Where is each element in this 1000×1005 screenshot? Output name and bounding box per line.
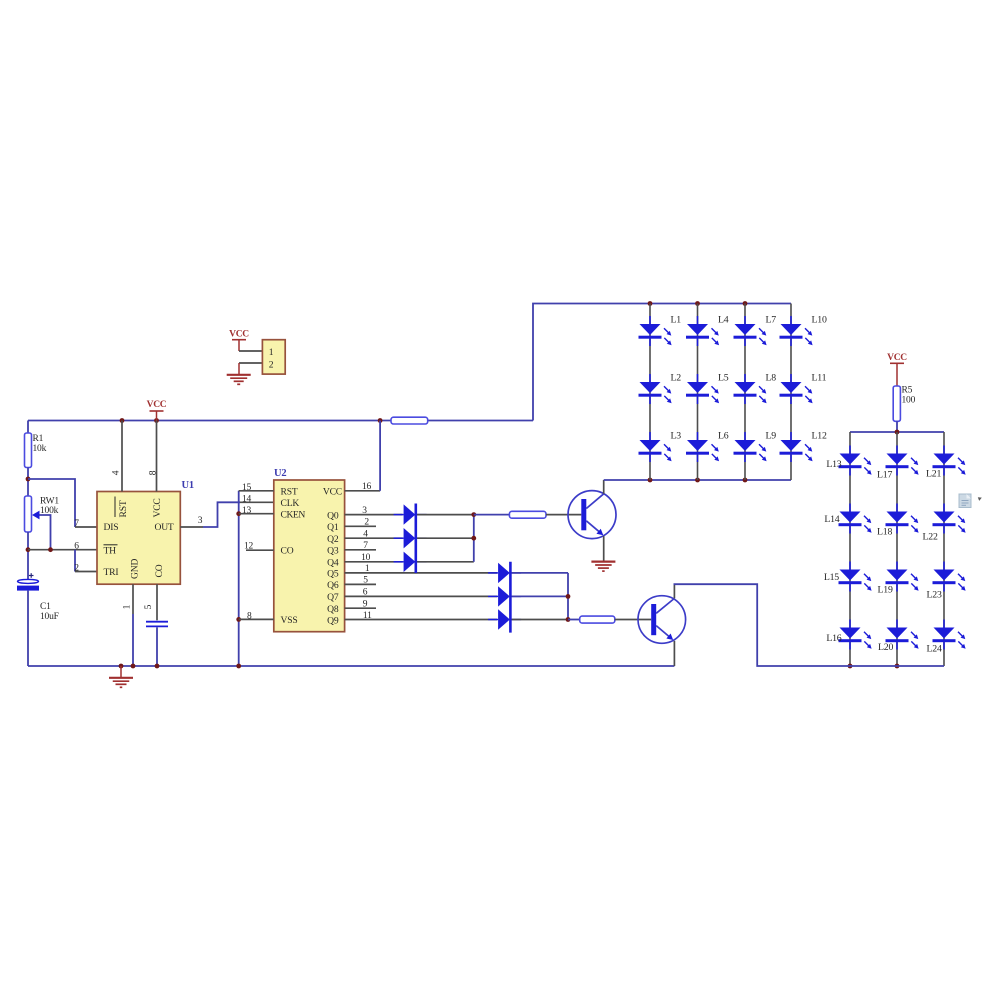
label L12 xyxy=(812,431,827,442)
IC U1 555 timer body xyxy=(97,492,180,585)
diode D3 xyxy=(394,552,427,572)
svg-text:L9: L9 xyxy=(766,431,777,442)
wire D3 cathode out xyxy=(417,561,474,563)
wire pin 1 GND down xyxy=(132,584,134,666)
diode D6 xyxy=(488,609,521,629)
diode group 1 cathode bar xyxy=(414,504,417,574)
wire LED column 3 xyxy=(744,304,746,481)
wire TRI branch to pin 2 xyxy=(75,550,97,572)
label L15 xyxy=(824,572,839,583)
wire Q1 pin 2 stub xyxy=(345,525,376,527)
wire Q0 pin 3 stub xyxy=(345,514,403,516)
wire LED column 2 xyxy=(697,304,699,481)
LED L6 xyxy=(686,432,719,462)
label U2 xyxy=(274,468,286,479)
svg-text:12: 12 xyxy=(244,542,254,552)
svg-text:L5: L5 xyxy=(718,373,729,384)
pin name OUT xyxy=(154,522,173,533)
svg-text:C1: C1 xyxy=(40,602,51,612)
LED L4 xyxy=(686,316,719,346)
pin number 11 xyxy=(363,611,372,621)
svg-text:CKEN: CKEN xyxy=(281,510,306,521)
pin number 6 xyxy=(363,588,368,598)
pin number 6 xyxy=(74,542,79,552)
pin number 1 xyxy=(365,564,370,574)
wire C1 to ground rail xyxy=(27,591,29,666)
svg-text:6: 6 xyxy=(74,542,79,552)
wire D5 cathode out xyxy=(512,595,568,597)
svg-text:L14: L14 xyxy=(824,514,839,525)
pin name CLK xyxy=(281,498,300,509)
label L17 xyxy=(877,470,892,481)
junction bus CKEN xyxy=(236,511,241,516)
label L16 xyxy=(826,633,841,644)
LED L11 xyxy=(780,374,813,404)
watermark icon xyxy=(959,494,982,508)
wire Q2 collector path to matrix 2 xyxy=(674,584,945,666)
LED L21 xyxy=(933,446,966,476)
svg-text:GND: GND xyxy=(130,559,141,579)
pin name Q1 xyxy=(327,522,339,533)
label L22 xyxy=(923,532,938,543)
pin name Q0 xyxy=(327,510,339,521)
svg-text:2: 2 xyxy=(364,518,369,528)
svg-text:11: 11 xyxy=(363,611,372,621)
wire pin 8 stub xyxy=(239,618,274,620)
svg-text:15: 15 xyxy=(242,483,252,493)
pin number 8 xyxy=(148,470,158,475)
wire Q1 emitter down xyxy=(603,536,605,562)
wire Q2 pin 4 stub xyxy=(345,537,403,539)
ground connector xyxy=(227,375,251,385)
wire pin 13 stub xyxy=(239,513,274,515)
junction ground rail pin1 xyxy=(131,664,136,669)
junction node A top xyxy=(471,512,476,517)
svg-text:4: 4 xyxy=(112,470,122,475)
svg-text:CO: CO xyxy=(281,546,294,557)
svg-text:VCC: VCC xyxy=(152,498,163,517)
pin number 5 xyxy=(363,576,368,586)
pin name CO vertical xyxy=(154,564,165,577)
svg-text:L12: L12 xyxy=(812,431,827,442)
svg-text:1: 1 xyxy=(123,604,133,609)
svg-text:8: 8 xyxy=(148,470,158,475)
junction bus VSS xyxy=(236,617,241,622)
power VCC R5 xyxy=(887,353,907,386)
wire node B vertical join xyxy=(567,573,569,620)
pin number 7 xyxy=(74,519,79,529)
LED L19 xyxy=(886,562,919,592)
pin number 3 xyxy=(362,506,367,516)
wire D1 cathode out xyxy=(417,514,474,516)
svg-text:L3: L3 xyxy=(671,431,682,442)
pin number 4 xyxy=(112,470,122,475)
LED L20 xyxy=(886,620,919,650)
svg-text:TRI: TRI xyxy=(104,567,119,578)
resistor R3 xyxy=(509,511,546,518)
pin number 1 connector xyxy=(269,347,274,358)
label L5 xyxy=(718,373,729,384)
power VCC connector xyxy=(229,329,249,351)
wire LED matrix 2 top rail xyxy=(850,431,944,433)
transistor Q1 xyxy=(568,491,616,539)
wire Q2 emitter down xyxy=(673,641,675,666)
svg-text:Q3: Q3 xyxy=(327,546,339,557)
LED L23 xyxy=(933,562,966,592)
wire Q8 pin 9 stub xyxy=(345,607,376,609)
label L10 xyxy=(812,315,827,326)
svg-text:5: 5 xyxy=(363,576,368,586)
label L11 xyxy=(812,373,827,384)
LED L1 xyxy=(639,316,672,346)
svg-text:2: 2 xyxy=(74,563,79,573)
svg-text:L10: L10 xyxy=(812,315,827,326)
wire riser to LED matrix 1 xyxy=(533,304,791,421)
pin name Q8 xyxy=(327,604,339,615)
svg-text:L11: L11 xyxy=(812,373,827,384)
svg-text:RW1: RW1 xyxy=(40,497,59,507)
wire main VCC rail xyxy=(28,420,391,422)
junction node B bottom xyxy=(566,617,571,622)
junction bottom rail col2 xyxy=(695,478,700,483)
junction node B mid xyxy=(566,594,571,599)
junction matrix2 bottom col1 xyxy=(848,664,853,669)
svg-text:Q6: Q6 xyxy=(327,580,339,591)
pin number 5 xyxy=(144,604,154,609)
pin name RST U2 xyxy=(281,487,298,498)
junction top rail col2 xyxy=(695,301,700,306)
label U1 xyxy=(182,480,194,491)
svg-text:R1: R1 xyxy=(33,434,44,444)
pin name Q6 xyxy=(327,580,339,591)
junction TH wiper xyxy=(48,547,53,552)
pin number 2 xyxy=(364,518,369,528)
label L6 xyxy=(718,431,729,442)
svg-text:CLK: CLK xyxy=(281,498,300,509)
svg-text:L6: L6 xyxy=(718,431,729,442)
label R1 value xyxy=(33,434,47,454)
svg-text:DIS: DIS xyxy=(104,522,119,533)
svg-text:6: 6 xyxy=(363,588,368,598)
pin name VSS xyxy=(281,615,298,626)
wire bottom ground rail xyxy=(28,665,674,667)
svg-text:TH: TH xyxy=(104,546,117,557)
pin number 16 xyxy=(362,482,372,492)
label C1 value xyxy=(40,602,59,622)
LED L5 xyxy=(686,374,719,404)
wire OUT stub xyxy=(180,526,203,528)
wire connector ground stem xyxy=(238,363,240,375)
wire node A vertical join xyxy=(473,515,475,562)
wire LED column 1 xyxy=(649,304,651,481)
LED L16 xyxy=(839,620,872,650)
wire C2 to ground rail xyxy=(156,627,158,666)
label L3 xyxy=(671,431,682,442)
LED L2 xyxy=(639,374,672,404)
svg-text:R5: R5 xyxy=(902,386,913,396)
svg-text:L16: L16 xyxy=(826,633,841,644)
resistor R1 xyxy=(25,433,32,468)
svg-text:5: 5 xyxy=(144,604,154,609)
svg-text:2: 2 xyxy=(269,360,274,371)
label L1 xyxy=(671,315,682,326)
wire pin 8 VCC xyxy=(156,421,158,492)
diode D5 xyxy=(488,586,521,606)
svg-text:VCC: VCC xyxy=(147,400,167,410)
junction node A mid xyxy=(471,536,476,541)
svg-text:VCC: VCC xyxy=(323,487,342,498)
svg-text:L22: L22 xyxy=(923,532,938,543)
wire R5 to matrix rail xyxy=(896,421,898,432)
svg-text:OUT: OUT xyxy=(154,522,173,533)
ground Q1 emitter xyxy=(591,562,615,572)
LED L12 xyxy=(780,432,813,462)
junction top rail col3 xyxy=(743,301,748,306)
svg-text:3: 3 xyxy=(198,516,203,526)
junction bottom rail col1 xyxy=(648,478,653,483)
svg-text:8: 8 xyxy=(247,611,252,621)
pin number 12 xyxy=(244,542,254,552)
svg-text:Q9: Q9 xyxy=(327,615,339,626)
wire D2 cathode out xyxy=(417,537,474,539)
junction top rail col1 xyxy=(648,301,653,306)
pin name Q3 xyxy=(327,546,339,557)
LED L24 xyxy=(933,620,966,650)
pin name GND vertical xyxy=(130,559,141,579)
svg-text:L1: L1 xyxy=(671,315,682,326)
svg-text:16: 16 xyxy=(362,482,372,492)
connector J1 xyxy=(262,340,285,374)
LED L17 xyxy=(886,446,919,476)
junction rail VCC xyxy=(154,418,159,423)
pin number 10 xyxy=(361,553,371,563)
label L7 xyxy=(766,315,777,326)
wire Q4 pin 10 stub xyxy=(345,561,403,563)
pin number 8 U2 xyxy=(247,611,252,621)
svg-text:L20: L20 xyxy=(878,642,893,653)
wire connector pin 2 xyxy=(239,362,262,364)
wire pin 12 stub xyxy=(246,549,274,551)
LED L13 xyxy=(839,446,872,476)
wire R3 to Q1 base xyxy=(546,514,581,516)
wire pin 16 riser xyxy=(379,421,381,491)
wire RW1 wiper xyxy=(40,515,51,550)
label R5 value xyxy=(902,386,916,406)
pin name RST vertical xyxy=(115,497,129,518)
label L9 xyxy=(766,431,777,442)
pin name TRI xyxy=(104,567,119,578)
pin number 2 connector xyxy=(269,360,274,371)
pin name VCC vertical xyxy=(152,498,163,517)
svg-text:L21: L21 xyxy=(926,469,941,480)
LED L10 xyxy=(780,316,813,346)
wire OUT to U2 CLK xyxy=(203,502,274,527)
wire node B to R4 xyxy=(568,619,580,621)
wire LED matrix 1 bottom rail xyxy=(604,479,791,481)
svg-text:9: 9 xyxy=(363,600,368,610)
label L18 xyxy=(877,527,892,538)
junction rail U2 VCC drop xyxy=(378,418,383,423)
label L14 xyxy=(824,514,839,525)
junction ground rail gnd xyxy=(119,664,124,669)
wire D6 cathode out xyxy=(512,619,568,621)
pin name Q4 xyxy=(327,558,339,569)
pin number 1 xyxy=(123,604,133,609)
svg-text:L2: L2 xyxy=(671,373,682,384)
svg-text:13: 13 xyxy=(242,506,252,516)
pin name Q2 xyxy=(327,534,339,545)
svg-text:10k: 10k xyxy=(33,444,47,454)
svg-text:L18: L18 xyxy=(877,527,892,538)
pin name Q7 xyxy=(327,592,339,603)
label L8 xyxy=(766,373,777,384)
svg-text:L4: L4 xyxy=(718,315,729,326)
pin name DIS xyxy=(104,522,119,533)
label L2 xyxy=(671,373,682,384)
svg-text:L7: L7 xyxy=(766,315,777,326)
pin name VCC U2 xyxy=(323,487,342,498)
wire pin 4 RST xyxy=(121,421,123,492)
svg-text:L15: L15 xyxy=(824,572,839,583)
pin name Q9 xyxy=(327,615,339,626)
pin number 9 xyxy=(363,600,368,610)
wire LED column 4 xyxy=(790,304,792,481)
LED L9 xyxy=(734,432,767,462)
svg-text:10: 10 xyxy=(361,553,371,563)
wire node A to R3 xyxy=(474,514,510,516)
pin number 14 xyxy=(242,495,252,505)
wire Q7 pin 6 stub xyxy=(345,595,497,597)
svg-text:1: 1 xyxy=(365,564,370,574)
junction bottom rail col3 xyxy=(743,478,748,483)
svg-text:Q2: Q2 xyxy=(327,534,339,545)
diode D4 xyxy=(488,563,521,583)
wire Q1 collector riser xyxy=(603,480,605,494)
svg-text:VCC: VCC xyxy=(887,353,907,363)
label L20 xyxy=(878,642,893,653)
svg-text:Q7: Q7 xyxy=(327,592,339,603)
junction bus ground rail xyxy=(236,664,241,669)
wire Q3 pin 7 stub xyxy=(345,549,376,551)
svg-text:CO: CO xyxy=(154,564,165,577)
pin name CKEN xyxy=(281,510,306,521)
svg-text:RST: RST xyxy=(118,500,129,517)
ground main xyxy=(109,666,133,687)
power VCC U1 xyxy=(147,400,167,421)
svg-text:Q5: Q5 xyxy=(327,569,339,580)
svg-text:L19: L19 xyxy=(878,585,893,596)
LED L14 xyxy=(839,504,872,534)
label L4 xyxy=(718,315,729,326)
wire pin 5 CO down xyxy=(156,584,158,620)
label L24 xyxy=(927,644,942,655)
junction node R1-RW1 xyxy=(26,477,31,482)
LED L7 xyxy=(734,316,767,346)
wire Q9 pin 11 stub xyxy=(345,619,497,621)
svg-text:1: 1 xyxy=(269,347,274,358)
wire pin 15 stub xyxy=(239,490,274,492)
wire D4 cathode out xyxy=(512,572,568,574)
capacitor C1 xyxy=(17,573,39,590)
svg-text:10uF: 10uF xyxy=(40,612,59,622)
svg-text:100: 100 xyxy=(902,396,916,406)
pin number 2 xyxy=(74,563,79,573)
LED L3 xyxy=(639,432,672,462)
IC U2 body xyxy=(274,480,345,632)
wire LED column 5 xyxy=(849,432,851,666)
pin number 15 xyxy=(242,483,252,493)
pin name TH xyxy=(104,545,118,557)
capacitor C2 on pin 5 xyxy=(146,622,168,627)
label L23 xyxy=(927,590,942,601)
pin number 13 xyxy=(242,506,252,516)
wire left rail R1 branch xyxy=(27,421,29,434)
svg-text:VSS: VSS xyxy=(281,615,298,626)
wire LED column 7 xyxy=(943,432,945,666)
pin name CO U2 xyxy=(281,546,294,557)
label RW1 value xyxy=(40,497,59,517)
wire pin 16 stub xyxy=(345,490,381,492)
LED L8 xyxy=(734,374,767,404)
svg-text:L8: L8 xyxy=(766,373,777,384)
label L21 xyxy=(926,469,941,480)
diode D2 xyxy=(394,528,427,548)
pin name Q5 xyxy=(327,569,339,580)
svg-text:14: 14 xyxy=(242,495,252,505)
pin number 7 xyxy=(363,541,368,551)
junction matrix2 top xyxy=(895,430,900,435)
wire LED column 6 xyxy=(896,432,898,666)
pin number 4 xyxy=(363,530,368,540)
svg-text:Q0: Q0 xyxy=(327,510,339,521)
wire RW1 to C1 xyxy=(27,532,29,579)
svg-text:L17: L17 xyxy=(877,470,892,481)
svg-text:VCC: VCC xyxy=(229,329,249,339)
junction matrix2 bottom col2 xyxy=(895,664,900,669)
svg-text:L13: L13 xyxy=(826,459,841,470)
wire rail right segment xyxy=(428,420,533,422)
wire Q5 pin 1 stub xyxy=(345,572,497,574)
diode D1 xyxy=(394,504,427,524)
svg-text:7: 7 xyxy=(74,519,79,529)
wire DIS jog to pin 7 xyxy=(28,479,97,527)
svg-text:RST: RST xyxy=(281,487,298,498)
wire Q6 pin 5 stub xyxy=(345,583,376,585)
resistor R5 xyxy=(893,386,900,421)
wire connector pin 1 xyxy=(239,350,262,352)
svg-text:U1: U1 xyxy=(182,480,194,491)
LED L22 xyxy=(933,504,966,534)
svg-text:Q4: Q4 xyxy=(327,558,339,569)
svg-text:Q8: Q8 xyxy=(327,604,339,615)
junction TH rail xyxy=(26,547,31,552)
transistor Q2 xyxy=(638,596,686,644)
svg-text:Q1: Q1 xyxy=(327,522,339,533)
potentiometer RW1 xyxy=(25,496,40,532)
junction rail pin4 xyxy=(120,418,125,423)
svg-text:U2: U2 xyxy=(274,468,286,479)
svg-text:7: 7 xyxy=(363,541,368,551)
resistor R4 xyxy=(580,616,615,623)
svg-text:L23: L23 xyxy=(927,590,942,601)
svg-text:3: 3 xyxy=(362,506,367,516)
diode group 2 cathode bar xyxy=(509,562,512,633)
wire R1 to RW1 xyxy=(27,468,29,497)
wire TH to pin 6 xyxy=(28,549,97,551)
LED L15 xyxy=(839,562,872,592)
resistor R2 xyxy=(391,417,428,424)
svg-text:4: 4 xyxy=(363,530,368,540)
